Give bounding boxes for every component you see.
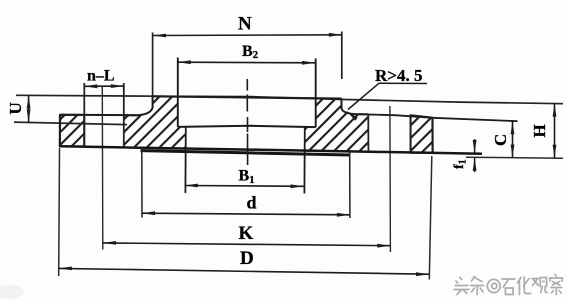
svg-text:H: H <box>530 124 549 137</box>
bottom face extension line for f1 and C H <box>466 157 563 158</box>
svg-text:C: C <box>491 134 510 146</box>
hub left outer edge with N extension up <box>152 33 154 97</box>
观 <box>532 278 547 293</box>
dimension d <box>142 193 350 217</box>
化 <box>518 277 531 295</box>
dimension K <box>103 223 390 248</box>
bore edge B2 left with extension up <box>177 58 179 128</box>
svg-text:U: U <box>6 102 25 114</box>
hatch region A: left outer rim section <box>60 115 84 147</box>
faint smudge bottom left <box>0 285 24 299</box>
dimension H (far right, vertical) <box>530 104 556 158</box>
plate top line left <box>60 114 138 116</box>
watermark 头条@石化观察 drawn as vector strokes <box>454 275 563 295</box>
raised face right step edge and d extension <box>349 152 351 219</box>
raised face left step edge and d extension <box>141 148 143 218</box>
right bolt centerline with K extension <box>389 106 392 252</box>
U bottom extension line <box>14 122 127 125</box>
dimension D <box>59 248 429 276</box>
vertical centerline of bore <box>246 79 248 165</box>
svg-text:N: N <box>238 14 252 35</box>
svg-text:K: K <box>239 223 254 244</box>
bore shoulder line between B2 and B1 <box>178 126 316 127</box>
dimension U (left, vertical) <box>6 96 31 123</box>
头 <box>454 278 469 295</box>
hatch region B: left plate and hub section <box>124 96 186 147</box>
bore edge B1 right with extension down <box>303 127 305 193</box>
right bolt hole edge right <box>410 115 412 153</box>
plate bottom line <box>60 146 482 153</box>
dimension n-L <box>84 68 124 89</box>
raised face bottom thick line <box>141 151 351 155</box>
svg-text:d: d <box>247 193 257 213</box>
right flange edge extension down to D <box>429 156 432 280</box>
dimension B2 <box>178 43 315 65</box>
石 <box>502 279 515 295</box>
dimension N <box>153 14 342 38</box>
top surface line (hub top with left and right extensions) <box>16 95 563 103</box>
right bolt hole edge left <box>367 114 369 152</box>
hub right outer edge, N extension partial <box>341 32 343 80</box>
hub top edge emphasized <box>153 96 342 98</box>
left bolt hole edge right with extension up <box>123 83 125 147</box>
left bolt centerline with K extension <box>101 86 104 249</box>
svg-text:n–L: n–L <box>87 68 115 85</box>
dimension C (right, vertical) <box>491 121 514 157</box>
left flange outer edge <box>59 115 61 147</box>
@ <box>487 279 500 292</box>
label R>4.5 with leader arrow to right hub fillet <box>345 66 427 121</box>
left bolt hole edge left with extension up to n-L <box>83 83 85 146</box>
svg-text:R>4. 5: R>4. 5 <box>375 66 422 85</box>
bore edge B1 left with extension down to B1 dim <box>184 127 186 193</box>
svg-text:D: D <box>240 248 254 269</box>
hatch region D: right outer rim section <box>411 115 433 153</box>
bore edge B2 right with extension up <box>315 59 317 128</box>
right flange outer edge <box>431 118 433 153</box>
hatch region C: right plate and hub section <box>305 98 369 153</box>
left flange edge extension down to D <box>58 148 61 276</box>
dimension B1 <box>185 168 304 189</box>
条 <box>470 277 483 295</box>
plate top line right with C extension <box>357 114 518 121</box>
dimension f1 (small, vertical, outside arrows) <box>452 139 477 172</box>
察 <box>550 275 563 295</box>
